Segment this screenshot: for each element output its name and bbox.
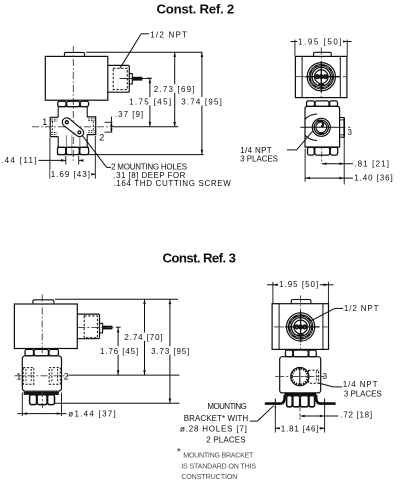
svg-text:3 PLACES: 3 PLACES [344, 389, 382, 398]
svg-text:1.69 [43]: 1.69 [43] [51, 170, 91, 179]
svg-text:IS STANDARD ON THIS: IS STANDARD ON THIS [181, 462, 256, 470]
port 2 outline (ref2 left) [87, 117, 96, 135]
horizontal centerline body (ref3 right) [275, 376, 324, 378]
port 1 threads [51, 118, 57, 120]
svg-text:1.81 [46]: 1.81 [46] [281, 425, 319, 434]
body boss arc upper (ref2 right) [305, 114, 317, 120]
dim text 1.81 [46] [280, 424, 320, 432]
dim 1.95 line (ref3 right) [267, 284, 273, 286]
front port thread swirl (ref2 right) [317, 121, 323, 127]
svg-text:CONSTRUCTION: CONSTRUCTION [181, 473, 237, 481]
right extension line port3 (ref2 right) [343, 137, 345, 184]
dim .37 [9] extension ticks [105, 121, 113, 123]
horizontal centerline (ref2 right) [295, 76, 348, 78]
svg-text:.37 [9]: .37 [9] [115, 110, 144, 119]
vertical centerline (ref2 right) [320, 48, 322, 99]
dim line 2.74 vertical [144, 299, 146, 375]
body upper sides (ref2 left) [57, 107, 59, 118]
bottom hex nut front (ref3 right) [287, 396, 293, 407]
pin tick (ref3 left) [116, 326, 121, 328]
valve body cylinder (ref3 left) [22, 356, 61, 391]
bracket hole tick left [274, 399, 276, 409]
coil top bump (ref3 right) [291, 300, 311, 304]
front port knurled ring (ref3 right) [292, 369, 308, 385]
dim line 3.74 vertical [201, 52, 203, 154]
leader 1/2 NPT (ref2) [141, 33, 149, 35]
mounting hole 1 (ref2 left) [65, 121, 68, 124]
svg-text:.44 [11]: .44 [11] [1, 156, 37, 165]
vertical centerline (ref2 left) [72, 46, 74, 161]
coil front inner edges (ref2 right) [301, 56, 303, 97]
connector pin (ref3 left) [103, 326, 112, 329]
port horizontal centerline (ref2 right) [300, 126, 332, 128]
coil body side view (ref3) [14, 304, 77, 349]
port 2 dashed square (ref3 left) [49, 368, 60, 385]
bottom hex nut (ref2 left) [57, 146, 89, 148]
mounting bracket left wing [266, 396, 285, 404]
svg-text:2.74 [70]: 2.74 [70] [124, 333, 163, 342]
body boss arc lower (ref2 right) [305, 135, 317, 141]
svg-text:1/2 NPT: 1/2 NPT [150, 31, 187, 40]
dim text 2.73 [69] [153, 84, 197, 92]
svg-text:BRACKET* WITH: BRACKET* WITH [184, 414, 249, 423]
svg-text:1/4 NPT: 1/4 NPT [343, 380, 378, 389]
bottom hex nut (ref2 right) [308, 147, 315, 155]
svg-text:3 PLACES: 3 PLACES [240, 155, 278, 164]
coil body side view (ref2) [45, 56, 108, 100]
connector dashed insert (ref3 left) [84, 316, 97, 338]
horizontal centerline (ref3 right) [274, 326, 328, 328]
dim 1.95 extension lines (ref2 right) [294, 40, 296, 57]
port 2 threads [88, 118, 95, 120]
svg-text:.72 [18]: .72 [18] [340, 411, 372, 420]
bottom hex nut (ref3 left) [30, 395, 37, 405]
connector box (ref3 left) [77, 314, 99, 339]
horizontal centerline (ref3 left) [15, 375, 70, 377]
dim 1.40 line [305, 177, 353, 179]
dim text 2.74 [70] [123, 333, 164, 341]
svg-text:Const. Ref. 2: Const. Ref. 2 [157, 2, 235, 17]
svg-text:ø.28 HOLES [7]: ø.28 HOLES [7] [180, 424, 247, 433]
coil front outline (ref2 right) [295, 56, 347, 97]
dim text 1.95 [50] (ref3 right) [278, 280, 320, 288]
valve body front (ref3 right) [280, 357, 321, 393]
svg-text:MOUNTING: MOUNTING [207, 402, 247, 411]
leader 1/4 NPT (ref2 right) [287, 149, 297, 151]
dim .44 leader and arrows [39, 159, 66, 161]
left extension line (ref2 right) [304, 149, 306, 182]
coil hub chain circles (ref3 right) [294, 325, 298, 329]
leader to mounting note [82, 135, 107, 168]
svg-text:1/2 NPT: 1/2 NPT [344, 304, 379, 313]
bottom reference line (ref3 left) [55, 402, 180, 404]
port 1 outline (ref2 left) [50, 117, 58, 136]
port centerline extension (ref3 left) [69, 374, 179, 376]
coil hub circle (ref3 right) [294, 320, 308, 334]
front port centerline cross (ref3 right) [299, 368, 301, 386]
bracket hole tick right [324, 399, 326, 409]
pin centerline (ref2 left) [120, 78, 151, 80]
lower centerline (ref3 left) [41, 391, 43, 408]
dim text 1.75 [45] [128, 97, 173, 105]
body lower sides (ref2 left) [57, 137, 59, 148]
mounting hole 2 (ref2 left) [78, 131, 81, 134]
svg-text:1: 1 [42, 117, 47, 127]
dim 1.44 line [18, 413, 67, 415]
coil bottom crescent (ref3 right) [298, 334, 304, 337]
port 3 dashed square (ref3 right) [309, 370, 319, 383]
svg-text:2.73 [69]: 2.73 [69] [154, 85, 195, 94]
valve body front (ref2 right) [305, 106, 340, 147]
top extension line (ref3 left) [55, 298, 178, 300]
coil inner circle (ref2 right) [312, 67, 331, 86]
port 1 dashed square (ref3 left) [23, 368, 34, 385]
dim 1.95 line (ref2 right) [291, 41, 295, 43]
svg-text:3.73 [95]: 3.73 [95] [151, 347, 190, 356]
dim 1.95 extension lines (ref3 right) [272, 282, 274, 304]
dim text 3.73 [95] [150, 346, 191, 354]
coil nameplate outer circle (ref3 right) [287, 313, 315, 341]
dim text 3.74 [95] [180, 97, 224, 105]
coil centerline cross dark (ref2 right) [320, 62, 322, 93]
svg-text:2: 2 [64, 372, 69, 382]
coil hub circle (ref2 right) [315, 70, 329, 84]
lower centerline (ref3 right) [299, 393, 301, 419]
horizontal port centerline (ref2 left) [32, 126, 112, 128]
front port thread circle (ref2 right) [314, 120, 328, 134]
dim .81 line [322, 163, 353, 165]
coil front inner edges (ref3 right) [278, 304, 280, 350]
mounting bracket right wing [316, 396, 334, 404]
mounting bracket plate under body [285, 394, 316, 396]
dim 1.69 line [50, 173, 95, 175]
svg-text:MOUNTING BRACKET: MOUNTING BRACKET [183, 452, 254, 460]
dim text 1.69 [43] [50, 169, 91, 177]
dim line 3.73 vertical [169, 299, 171, 403]
coil centerline cross dark (ref3 right) [300, 312, 302, 343]
coil nameplate double ring (ref2 right) [309, 65, 333, 89]
svg-text:1: 1 [16, 372, 21, 382]
port 3 thread ticks (ref2 right) [340, 119, 344, 121]
leader 1/4 NPT (ref3 right) [333, 386, 342, 388]
body bottom reference line (ref2 left) [57, 154, 203, 156]
lower centerline mark (ref2 right) [321, 147, 323, 163]
dim .44 extension lines [65, 156, 67, 165]
connector pin (ref2 left) [132, 77, 142, 80]
svg-text:ø1.44 [37]: ø1.44 [37] [68, 410, 116, 419]
left bracket extension line [274, 407, 276, 433]
top extension line to dims (ref2 left) [86, 51, 202, 53]
dim text 1.76 [45] [99, 346, 140, 354]
svg-text:1.40 [36]: 1.40 [36] [354, 174, 393, 183]
svg-text:1.95 [50]: 1.95 [50] [279, 280, 319, 289]
dim 1.44 extension lines [21, 393, 23, 417]
svg-text:3.74 [95]: 3.74 [95] [181, 98, 222, 107]
bonnet hex nut (ref3 left) [25, 349, 34, 355]
coil nameplate lettering blobs (ref2 right) [310, 65, 333, 88]
pin centerline (ref3 left) [77, 326, 115, 328]
coil front outline (ref3 right) [272, 304, 328, 350]
bonnet hex nut (ref2 left) [58, 101, 66, 106]
coil bottom crescent (ref2 right) [318, 84, 324, 87]
solenoid connector box (ref2 left) [108, 65, 130, 92]
coil top bump (ref2 right) [314, 52, 332, 56]
leader 1/2 NPT (ref3 right) [335, 307, 343, 309]
port 3 centerline (ref2 right) [333, 126, 346, 128]
coil inner circle (ref3 right) [291, 318, 310, 337]
washer band (ref3 left) [24, 392, 58, 394]
coil nameplate outer circle (ref2 right) [307, 63, 335, 91]
svg-text:1.95 [50]: 1.95 [50] [298, 37, 342, 46]
dim text 1.95 [50] (ref2 right) [297, 37, 343, 45]
svg-text:3: 3 [348, 128, 353, 137]
front port outer circle (ref3 right) [291, 368, 309, 386]
connector stem (ref2 left) [129, 74, 132, 84]
leader bracket note [250, 420, 258, 422]
dim 1.81 line [275, 427, 324, 429]
mounting slot obround (ref2 left) [62, 118, 83, 137]
dim line 2.73 vertical [174, 52, 176, 127]
dim .72 line [300, 415, 338, 417]
connector stem (ref3 left) [100, 323, 103, 333]
svg-text:Const. Ref. 3: Const. Ref. 3 [163, 250, 237, 265]
coil nameplate lettering blobs (ref3 right) [289, 315, 312, 338]
bonnet hex nut (ref3 right) [285, 350, 292, 357]
port 3 tab (ref2 right) [340, 117, 345, 119]
dim line 1.75 vertical [149, 78, 151, 127]
svg-text:1.75 [45]: 1.75 [45] [129, 98, 172, 107]
vertical centerline (ref3 left) [41, 295, 43, 357]
vertical centerline (ref3 right) [300, 296, 302, 351]
svg-text:2 PLACES: 2 PLACES [206, 436, 246, 445]
svg-text:3: 3 [323, 372, 328, 381]
svg-text:1.76 [45]: 1.76 [45] [100, 347, 139, 356]
right bracket extension line [324, 409, 326, 433]
svg-text:2: 2 [99, 133, 104, 143]
coil hub chain circles (ref2 right) [315, 75, 319, 79]
front port outer circle (ref2 right) [312, 118, 330, 136]
svg-text:.164 THD CUTTING SCREW: .164 THD CUTTING SCREW [113, 179, 231, 188]
coil top bump (ref3 left) [33, 300, 54, 304]
dim 1.69 extension lines [49, 138, 51, 179]
svg-text:*: * [177, 446, 182, 458]
connector dashed insert (ref2 left) [113, 68, 127, 89]
bonnet hex nut (ref2 right) [307, 101, 315, 107]
dim line 1.76 vertical [117, 327, 119, 375]
facet hidden lines (ref2 left) [65, 135, 67, 154]
dim .37 [9] vertical line [110, 117, 112, 133]
coil nameplate double ring (ref3 right) [288, 315, 312, 339]
svg-text:.81 [21]: .81 [21] [354, 160, 389, 169]
coil top bump (ref2 left) [64, 52, 84, 56]
